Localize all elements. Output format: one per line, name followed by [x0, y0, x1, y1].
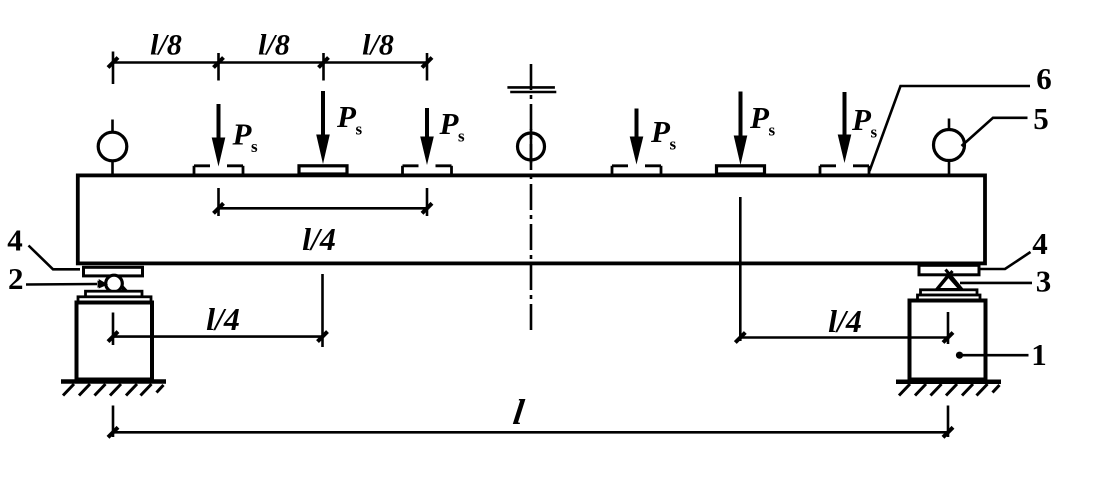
right support: plate C	[918, 295, 981, 300]
leader to label 3	[960, 282, 1032, 285]
left support: roller	[106, 275, 123, 292]
leader to label 2	[26, 283, 97, 286]
svg-text:P: P	[232, 117, 253, 152]
svg-text:s: s	[458, 127, 465, 146]
tick at x=427	[426, 53, 429, 81]
load arrow P5	[734, 92, 748, 166]
centerline (dash-dot)	[530, 64, 533, 330]
svg-text:s: s	[251, 137, 258, 156]
loading pad 6 (dashed)	[820, 166, 869, 174]
svg-text:l/8: l/8	[258, 29, 290, 62]
svg-text:s: s	[769, 121, 776, 140]
svg-text:l/4: l/4	[206, 301, 240, 337]
left support: wedge left	[99, 279, 108, 289]
svg-text:l/4: l/4	[302, 221, 336, 257]
svg-text:1: 1	[1031, 337, 1047, 372]
loading pad 1 (dashed)	[194, 166, 243, 174]
left support: pedestal	[77, 303, 153, 380]
loading pad 2 (solid)	[299, 166, 347, 174]
load arrow P4	[630, 109, 644, 165]
mid dimension line l/4 (between pads 1-3)	[219, 207, 428, 210]
left support: top bearing plate	[84, 267, 143, 276]
svg-text:5: 5	[1033, 101, 1049, 136]
top dimension line l/8 x3	[113, 61, 427, 64]
dial gauge right (stem)	[948, 119, 951, 131]
right l/4 dimension	[740, 336, 948, 339]
load arrow P2	[316, 91, 330, 164]
svg-text:l: l	[511, 392, 527, 432]
load arrow P6	[838, 92, 852, 163]
beam (test specimen)	[78, 175, 985, 263]
loading pad 3 (dashed)	[403, 166, 452, 174]
svg-text:6: 6	[1036, 61, 1052, 96]
load arrow P1	[212, 104, 226, 167]
svg-text:l/8: l/8	[150, 29, 182, 62]
dial gauge left (stem)	[111, 120, 114, 134]
slash terminators top dim	[108, 58, 118, 68]
right ground hatching	[899, 384, 1000, 396]
loading pad 5 (solid)	[717, 166, 765, 174]
svg-text:4: 4	[1032, 226, 1048, 261]
right support: knife-edge hinge	[937, 276, 961, 290]
svg-text:s: s	[871, 123, 878, 142]
svg-text:P: P	[336, 99, 357, 134]
left support: plate C	[78, 297, 151, 303]
right support: pedestal	[910, 301, 986, 380]
left ground line	[61, 379, 166, 384]
left support: wedge right	[122, 284, 128, 290]
svg-text:l/8: l/8	[362, 29, 394, 62]
leader to label 5	[962, 118, 1028, 146]
dial gauge centre (stem through circle)	[530, 129, 533, 163]
loading pad 4 (dashed)	[612, 166, 661, 174]
svg-text:2: 2	[8, 261, 24, 296]
svg-text:P: P	[851, 102, 872, 137]
tick at x=323.5	[322, 53, 325, 81]
left ground hatching	[63, 384, 164, 396]
right support: plate B	[921, 290, 978, 295]
left l/4 dimension	[113, 335, 323, 338]
leader to label 4 (right)	[979, 252, 1031, 269]
right support: top bearing plate	[919, 265, 979, 275]
load arrow P3	[420, 108, 434, 165]
dial gauge left (circle)	[98, 132, 127, 161]
bottom dimension l	[113, 431, 948, 434]
leader to label 1 with dot	[956, 352, 963, 359]
svg-text:P: P	[650, 114, 671, 149]
tick at x=113	[112, 52, 115, 85]
dial gauge centre (circle)	[518, 133, 545, 160]
svg-text:l/4: l/4	[828, 303, 862, 339]
dial gauge right (circle)	[934, 130, 965, 161]
leader to label 4 (left)	[29, 246, 81, 270]
svg-text:P: P	[749, 100, 770, 135]
svg-text:4: 4	[7, 223, 23, 258]
leader to label 6	[870, 86, 1031, 171]
svg-text:s: s	[356, 120, 363, 139]
svg-text:s: s	[670, 135, 677, 154]
svg-text:3: 3	[1036, 264, 1052, 299]
left support: plate B	[86, 291, 143, 297]
tick at x=218.5	[217, 53, 220, 81]
svg-text:P: P	[439, 106, 460, 141]
section break symbol	[507, 86, 555, 89]
right ground line	[896, 380, 1001, 385]
